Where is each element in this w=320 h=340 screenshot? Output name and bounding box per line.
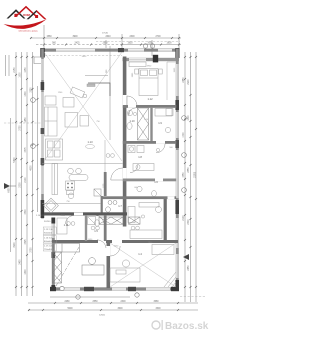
sofa left wall: [45, 107, 58, 136]
svg-text:1700: 1700: [183, 132, 185, 138]
svg-text:3600: 3600: [117, 308, 123, 310]
armchair living top: [45, 96, 56, 105]
washbasin small room: [137, 186, 142, 191]
svg-text:3900: 3900: [72, 36, 78, 38]
svg-text:1560: 1560: [46, 36, 52, 38]
kitchen counter stadium: [69, 175, 88, 181]
bathroom mid fixtures: [127, 110, 132, 115]
svg-text:3900: 3900: [14, 242, 16, 248]
svg-text:1550: 1550: [183, 172, 185, 178]
bottom exterior wall: [50, 287, 179, 290]
armchair pair / dining set lower left: [46, 139, 63, 160]
door arc room 1.10: [128, 108, 136, 116]
living room X diagonal 2: [44, 52, 122, 161]
window gaps bottom wall: [60, 288, 80, 291]
kitchen edge line: [42, 202, 101, 204]
left short chain top: [5, 55, 7, 76]
cabinet row bottom-left room: [54, 244, 80, 253]
small room bed bottom-left: [57, 218, 67, 234]
svg-text:2900: 2900: [102, 43, 108, 45]
svg-text:1950: 1950: [127, 43, 133, 45]
interior wall horizontal y=141.5: [123, 141, 177, 144]
svg-text:1500: 1500: [25, 209, 27, 215]
svg-text:1.8: 1.8: [138, 155, 142, 159]
door arc room small: [97, 240, 106, 248]
dashed terrain lines: [4, 42, 206, 297]
svg-text:2100: 2100: [183, 215, 185, 221]
window gaps left wall: [42, 59, 44, 80]
toilet small room: [152, 191, 157, 197]
flue dark block: [153, 55, 158, 63]
nightstand right: [159, 69, 163, 74]
svg-text:1.7: 1.7: [118, 204, 122, 208]
in-room tiny dimension texts: [58, 56, 176, 248]
interior wall horizontal y=212.5: [44, 212, 127, 215]
svg-text:1.9: 1.9: [158, 121, 162, 125]
svg-text:2280: 2280: [64, 301, 70, 303]
wall stub living right: [88, 83, 110, 96]
svg-text:2450: 2450: [188, 265, 190, 271]
svg-text:1.12: 1.12: [147, 97, 153, 101]
interior wall vertical x=164: [164, 197, 167, 240]
living room X diagonal 1: [44, 52, 122, 161]
nightstand left: [135, 69, 139, 74]
svg-text:1.16 3,15: 1.16 3,15: [44, 238, 54, 240]
coffee table large: [65, 113, 78, 128]
watermark bottom right: [152, 320, 209, 332]
top dimension line 1: [30, 37, 181, 39]
side table right: [80, 116, 89, 127]
svg-text:1575: 1575: [25, 147, 27, 153]
coffee table upper: [63, 98, 74, 108]
svg-text:1.15 2,30: 1.15 2,30: [44, 229, 54, 231]
corner column top-left dark: [40, 48, 45, 58]
svg-text:DOM: DOM: [23, 13, 30, 17]
svg-text:10250: 10250: [195, 171, 197, 178]
closet band hallway left: [99, 217, 123, 224]
bathtub room 1.8: [133, 164, 154, 171]
logo roofs top-left: [4, 6, 47, 33]
dimension texts: [9, 33, 197, 317]
svg-text:17540: 17540: [102, 33, 109, 35]
door arc second small room: [96, 216, 104, 224]
svg-text:2450: 2450: [183, 77, 185, 83]
entry arrow right: [183, 254, 189, 260]
svg-text:12500: 12500: [99, 314, 106, 316]
svg-text:2450: 2450: [20, 259, 22, 265]
svg-text:2750: 2750: [20, 125, 22, 131]
interior wall horizontal y=106: [123, 105, 177, 108]
cabinet room 1.4 right: [152, 245, 174, 255]
kitchen sink circles: [68, 168, 74, 174]
svg-text:1600: 1600: [25, 269, 27, 275]
svg-text:2300: 2300: [129, 36, 135, 38]
svg-text:1.13: 1.13: [87, 140, 93, 144]
interior wall vertical x=108 room 1.4: [107, 242, 111, 288]
desk room 1.4: [110, 268, 140, 282]
svg-text:750x400: 750x400: [44, 249, 53, 251]
desk bottom-left room: [82, 265, 104, 275]
corner column top-right: [175, 48, 179, 58]
svg-text:2300: 2300: [120, 301, 126, 303]
door arc hall-living: [111, 168, 123, 180]
svg-text:2900: 2900: [188, 79, 190, 85]
interior wall vertical x=105 below: [104, 215, 107, 241]
WC toilet: [94, 220, 99, 226]
interior wall vertical x=105 kitchen: [104, 172, 107, 196]
window under right roof: [35, 15, 38, 18]
window gap top wall living: [56, 49, 95, 51]
svg-text:90/200: 90/200: [44, 221, 51, 223]
window gap top wall right: [128, 49, 144, 51]
svg-text:2700: 2700: [155, 36, 161, 38]
roof right two-tone: [27, 10, 37, 19]
utility room 1.6 cabinets: [139, 203, 159, 208]
interior wall vertical x=86: [85, 215, 87, 241]
svg-text:5000: 5000: [67, 308, 73, 310]
kitchen hob: [66, 181, 75, 190]
interior wall horizontal y=196: [101, 196, 176, 199]
svg-text:2150: 2150: [14, 67, 16, 73]
entry arrow left: [4, 183, 16, 189]
kitchen small box: [67, 191, 74, 195]
svg-text:1.4: 1.4: [138, 252, 142, 256]
svg-text:1.17 2,05: 1.17 2,05: [44, 246, 54, 248]
svg-text:2300: 2300: [20, 182, 22, 188]
bottom-left exterior wall vertical: [52, 218, 55, 291]
door arc room 1.4: [110, 246, 120, 256]
right exterior wall: [176, 49, 179, 292]
corner shelf diagonals room 1.4: [164, 272, 176, 287]
TV tilted living: [70, 87, 85, 98]
bottom wall dark columns: [50, 287, 56, 291]
interior wall vertical between small rooms: [150, 107, 152, 142]
axis circles: [31, 44, 187, 299]
window under left roof: [14, 14, 17, 17]
left vertical chains: [10, 118, 12, 252]
svg-text:nehnutelnosti a sprava: nehnutelnosti a sprava: [18, 30, 38, 33]
door arc room 1.6: [130, 165, 138, 173]
svg-text:Bazos.sk: Bazos.sk: [165, 321, 209, 332]
door arc wc: [66, 216, 75, 225]
left wall dark columns: [41, 82, 45, 90]
red swoosh: [4, 19, 47, 29]
section diagonal dash-dot: [56, 247, 79, 286]
kitchen tall cabinet strip: [52, 164, 58, 195]
room 1.4 diagonal: [110, 243, 176, 287]
closet band hallway right: [129, 217, 141, 224]
svg-text:1.6: 1.6: [154, 180, 158, 184]
left exterior wall: [41, 49, 44, 219]
bed bedroom top-right: [139, 69, 158, 96]
svg-text:4900: 4900: [31, 165, 33, 171]
svg-text:800x600: 800x600: [44, 241, 53, 243]
dimension ticks: [15, 37, 197, 311]
svg-text:2300: 2300: [188, 219, 190, 225]
svg-text:1800: 1800: [188, 115, 190, 121]
leader verticals top: [43, 25, 45, 48]
wardrobe bedroom-mid with X: [138, 108, 149, 140]
svg-text:1900: 1900: [20, 72, 22, 78]
svg-text:1800: 1800: [166, 43, 172, 45]
porch step top-left: [34, 57, 41, 64]
shower square kitchen wall: [94, 189, 101, 196]
door arc bedroom: [127, 96, 137, 106]
svg-text:2850: 2850: [188, 167, 190, 173]
diamond pantry: [44, 198, 59, 213]
svg-text:1050: 1050: [25, 67, 27, 73]
bedroom closet line: [166, 62, 168, 100]
svg-text:1.10 0,95: 1.10 0,95: [36, 215, 46, 217]
svg-text:5400: 5400: [14, 157, 16, 163]
svg-text:2425: 2425: [74, 43, 80, 45]
kitchen section circle: [68, 193, 74, 199]
room schedule label stack left: [36, 215, 56, 251]
living/kitchen floor edge line: [42, 163, 123, 165]
svg-text:1.10: 1.10: [129, 119, 135, 123]
top dimension line 2 solid right: [120, 44, 181, 46]
svg-text:3300: 3300: [155, 308, 161, 310]
WC room fixtures: [106, 201, 117, 213]
bedroom inner top wall: [123, 58, 180, 61]
room labels: [64, 97, 163, 256]
top exterior wall band: [41, 49, 179, 52]
radiator living: [87, 84, 95, 87]
svg-text:1300: 1300: [25, 91, 27, 97]
svg-text:1.11: 1.11: [64, 223, 69, 227]
svg-text:2100: 2100: [25, 177, 27, 183]
interior wall vertical main x=124: [123, 57, 127, 227]
door arc room 1.8: [156, 144, 165, 153]
bedroom closet band under window: [129, 62, 146, 67]
svg-text:900x500: 900x500: [44, 232, 53, 234]
wardrobe X column bottom-left room: [53, 252, 62, 283]
interior dim line living: [85, 46, 110, 140]
svg-text:3750: 3750: [31, 247, 33, 253]
svg-text:6650: 6650: [9, 187, 11, 193]
svg-text:3680: 3680: [153, 301, 159, 303]
column top wall joint: [118, 48, 124, 52]
svg-text:3250: 3250: [31, 87, 33, 93]
svg-text:2640: 2640: [105, 36, 111, 38]
right wall dark columns: [175, 100, 179, 110]
circled room labels pairs: [67, 112, 160, 230]
svg-text:2550: 2550: [92, 301, 98, 303]
svg-text:1525: 1525: [25, 239, 27, 245]
WC left wall vertical x=101.5: [101, 196, 103, 215]
right vertical chains: [184, 52, 186, 302]
roof left dark: [7, 9, 26, 18]
roof middle red: [14, 6, 38, 17]
top dimension line 2 dashed left: [36, 44, 120, 46]
svg-text:1450: 1450: [25, 117, 27, 123]
laundry room 1.8: [128, 146, 135, 153]
bottom chains: [28, 302, 198, 304]
interior wall horizontal y=179: [123, 179, 177, 182]
window gaps right wall: [176, 64, 178, 96]
interior wall horizontal y=241: [52, 240, 178, 243]
